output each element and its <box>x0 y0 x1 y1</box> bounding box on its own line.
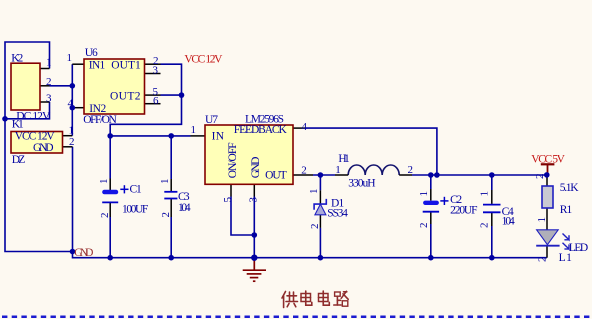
svg-text:GND: GND <box>250 157 262 179</box>
svg-text:VCC 5V: VCC 5V <box>531 154 565 166</box>
svg-text:100UF: 100UF <box>122 203 148 215</box>
svg-text:2: 2 <box>536 257 548 263</box>
svg-text:2: 2 <box>99 213 111 219</box>
svg-text:ON/OFF: ON/OFF <box>227 142 239 178</box>
svg-text:1: 1 <box>69 124 75 136</box>
svg-text:2: 2 <box>418 223 430 229</box>
svg-text:1: 1 <box>98 179 110 185</box>
svg-text:330uH: 330uH <box>348 178 375 190</box>
svg-text:220UF: 220UF <box>450 205 477 217</box>
svg-text:1: 1 <box>46 57 52 69</box>
svg-text:2: 2 <box>160 212 172 218</box>
svg-text:5: 5 <box>222 197 234 203</box>
svg-text:3: 3 <box>46 92 52 104</box>
svg-text:GND: GND <box>74 247 93 259</box>
svg-text:3: 3 <box>153 65 159 77</box>
svg-text:5.1K: 5.1K <box>560 182 580 194</box>
svg-text:VCC 12V: VCC 12V <box>15 131 56 143</box>
svg-text:104: 104 <box>502 216 515 228</box>
svg-text:1: 1 <box>67 52 73 64</box>
svg-text:U7: U7 <box>205 114 218 126</box>
svg-text:4: 4 <box>68 97 74 109</box>
svg-text:1: 1 <box>479 191 491 197</box>
svg-text:3: 3 <box>248 197 260 203</box>
svg-text:OFF/ON: OFF/ON <box>83 114 117 126</box>
svg-text:K2: K2 <box>11 53 23 65</box>
svg-text:L1: L1 <box>559 252 573 264</box>
svg-text:VCC 12V: VCC 12V <box>184 54 223 66</box>
svg-text:GND: GND <box>33 142 54 154</box>
svg-text:2: 2 <box>534 174 546 180</box>
svg-text:R1: R1 <box>560 204 573 216</box>
svg-text:2: 2 <box>69 136 75 148</box>
svg-text:1: 1 <box>308 189 320 195</box>
svg-text:IN: IN <box>212 131 225 143</box>
svg-text:1: 1 <box>418 191 430 197</box>
svg-text:DZ: DZ <box>12 154 25 166</box>
svg-text:6: 6 <box>153 95 159 107</box>
svg-text:1: 1 <box>335 164 341 176</box>
svg-text:1: 1 <box>191 124 197 136</box>
svg-text:4: 4 <box>302 121 308 133</box>
svg-text:FEEDBACK: FEEDBACK <box>234 124 288 136</box>
svg-text:K1: K1 <box>12 119 24 131</box>
svg-text:2: 2 <box>479 223 491 229</box>
svg-text:IN1: IN1 <box>89 60 106 72</box>
svg-text:C1: C1 <box>130 184 142 196</box>
svg-text:OUT: OUT <box>265 169 287 181</box>
svg-text:1: 1 <box>159 179 171 185</box>
svg-text:OUT2: OUT2 <box>110 91 141 103</box>
svg-text:2: 2 <box>301 165 307 177</box>
svg-text:2: 2 <box>46 76 52 88</box>
svg-text:2: 2 <box>309 224 321 230</box>
svg-text:1: 1 <box>536 217 548 223</box>
svg-text:104: 104 <box>178 202 191 214</box>
svg-text:2: 2 <box>408 164 414 176</box>
svg-text:U6: U6 <box>85 47 98 59</box>
svg-text:OUT1: OUT1 <box>111 60 141 72</box>
svg-text:SS34: SS34 <box>327 208 348 220</box>
